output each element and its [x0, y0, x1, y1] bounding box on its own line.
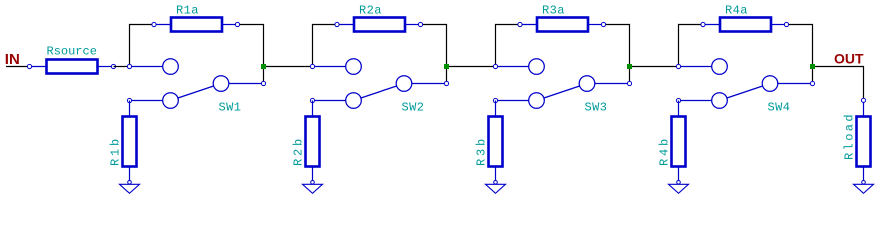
svg-text:IN: IN — [5, 51, 20, 68]
resistor R2b — [306, 101, 320, 181]
pin Rload.1 — [861, 98, 865, 102]
svg-text:R2b: R2b — [292, 136, 306, 166]
wire top rail right / down to junction 3 — [604, 25, 630, 84]
wire junction 3 to node 4 — [630, 66, 679, 68]
svg-text:R1b: R1b — [109, 136, 123, 166]
pin R2a.2 — [418, 22, 422, 26]
svg-text:Rload: Rload — [843, 112, 857, 160]
resistor R1a — [154, 18, 238, 32]
pin R4a.1 — [701, 22, 705, 26]
pin SW1.S1 (pole lead end) — [261, 81, 265, 85]
label Rload — [843, 112, 857, 160]
resistor R3b — [489, 101, 503, 181]
wire junction 2 to node 3 — [447, 66, 496, 68]
pin R1a.2 — [235, 22, 239, 26]
pin R1b.2 — [128, 181, 132, 185]
svg-text:R1a: R1a — [176, 4, 199, 18]
wire IN net — [6, 66, 30, 68]
ground GND3 — [486, 184, 506, 193]
svg-text:OUT: OUT — [834, 51, 864, 67]
pin R3b.2 — [494, 181, 498, 185]
wire top rail right / down to junction 2 — [421, 25, 447, 84]
svg-text:Rsource: Rsource — [47, 45, 97, 59]
wire top rail right / down to junction 1 — [238, 25, 264, 84]
switch SW1 — [130, 59, 264, 109]
pin SW4.P (node) — [676, 64, 680, 68]
label R4b — [658, 136, 672, 166]
ground GND load — [854, 184, 874, 193]
svg-text:SW2: SW2 — [402, 101, 425, 115]
svg-text:SW3: SW3 — [585, 101, 608, 115]
resistor R2a — [337, 18, 421, 32]
wire top rail right / down to junction 4 — [787, 25, 813, 84]
resistor R1b — [123, 101, 137, 181]
resistor R4a — [703, 18, 787, 32]
pin R4a.2 — [784, 22, 788, 26]
pin SW1.S2 (lower throw) — [127, 98, 131, 102]
pin Rload.2 — [862, 181, 866, 185]
pin SW2.P (node) — [310, 64, 314, 68]
label R3b — [475, 136, 489, 166]
junction node J3 (green) — [627, 64, 632, 69]
pin Rsource.2 — [111, 64, 115, 68]
pin SW2.S2 (lower throw) — [310, 98, 314, 102]
svg-text:R3b: R3b — [475, 136, 489, 166]
resistor R4b — [672, 101, 686, 181]
wire junction 1 to node 2 — [264, 66, 313, 68]
svg-text:SW4: SW4 — [768, 101, 791, 115]
ground GND1 — [120, 184, 140, 193]
wire Rsource to node A1 — [114, 66, 130, 68]
ground GND4 — [669, 184, 689, 193]
pin R2a.1 — [335, 22, 339, 26]
junction node J4 (green) — [810, 64, 815, 69]
svg-text:R3a: R3a — [542, 4, 565, 18]
junction node J1 (green) — [261, 64, 266, 69]
wire node 1 up to top rail — [130, 25, 155, 67]
svg-text:R4a: R4a — [725, 4, 748, 18]
svg-text:SW1: SW1 — [219, 101, 242, 115]
svg-text:R4b: R4b — [658, 136, 672, 166]
svg-text:R2a: R2a — [359, 4, 382, 18]
pin R3a.2 — [601, 22, 605, 26]
pin SW1.P (node) — [127, 64, 131, 68]
switch SW4 — [679, 59, 813, 109]
pin SW3.S2 (lower throw) — [493, 98, 497, 102]
wire node 3 up to top rail — [496, 25, 521, 67]
pin Rsource.1 — [27, 64, 31, 68]
pin R4b.2 — [677, 181, 681, 185]
pin SW3.P (node) — [493, 64, 497, 68]
resistor Rload — [857, 100, 871, 180]
pin SW2.S1 (pole lead end) — [444, 81, 448, 85]
resistor Rsource — [30, 60, 114, 74]
wire node 2 up to top rail — [313, 25, 338, 67]
label R2b — [292, 136, 306, 166]
switch SW2 — [313, 59, 447, 109]
switch SW3 — [496, 59, 630, 109]
resistor R3a — [520, 18, 604, 32]
junction node J2 (green) — [444, 64, 449, 69]
pin SW4.S1 (pole lead end) — [810, 81, 814, 85]
pin R1a.1 — [152, 22, 156, 26]
wire junction 4 to OUT / down to Rload — [813, 67, 864, 101]
wire node 4 up to top rail — [679, 25, 704, 67]
pin R3a.1 — [518, 22, 522, 26]
pin R2b.2 — [311, 181, 315, 185]
pin SW3.S1 (pole lead end) — [627, 81, 631, 85]
pin SW4.S2 (lower throw) — [676, 98, 680, 102]
ground GND2 — [303, 184, 323, 193]
label R1b — [109, 136, 123, 166]
